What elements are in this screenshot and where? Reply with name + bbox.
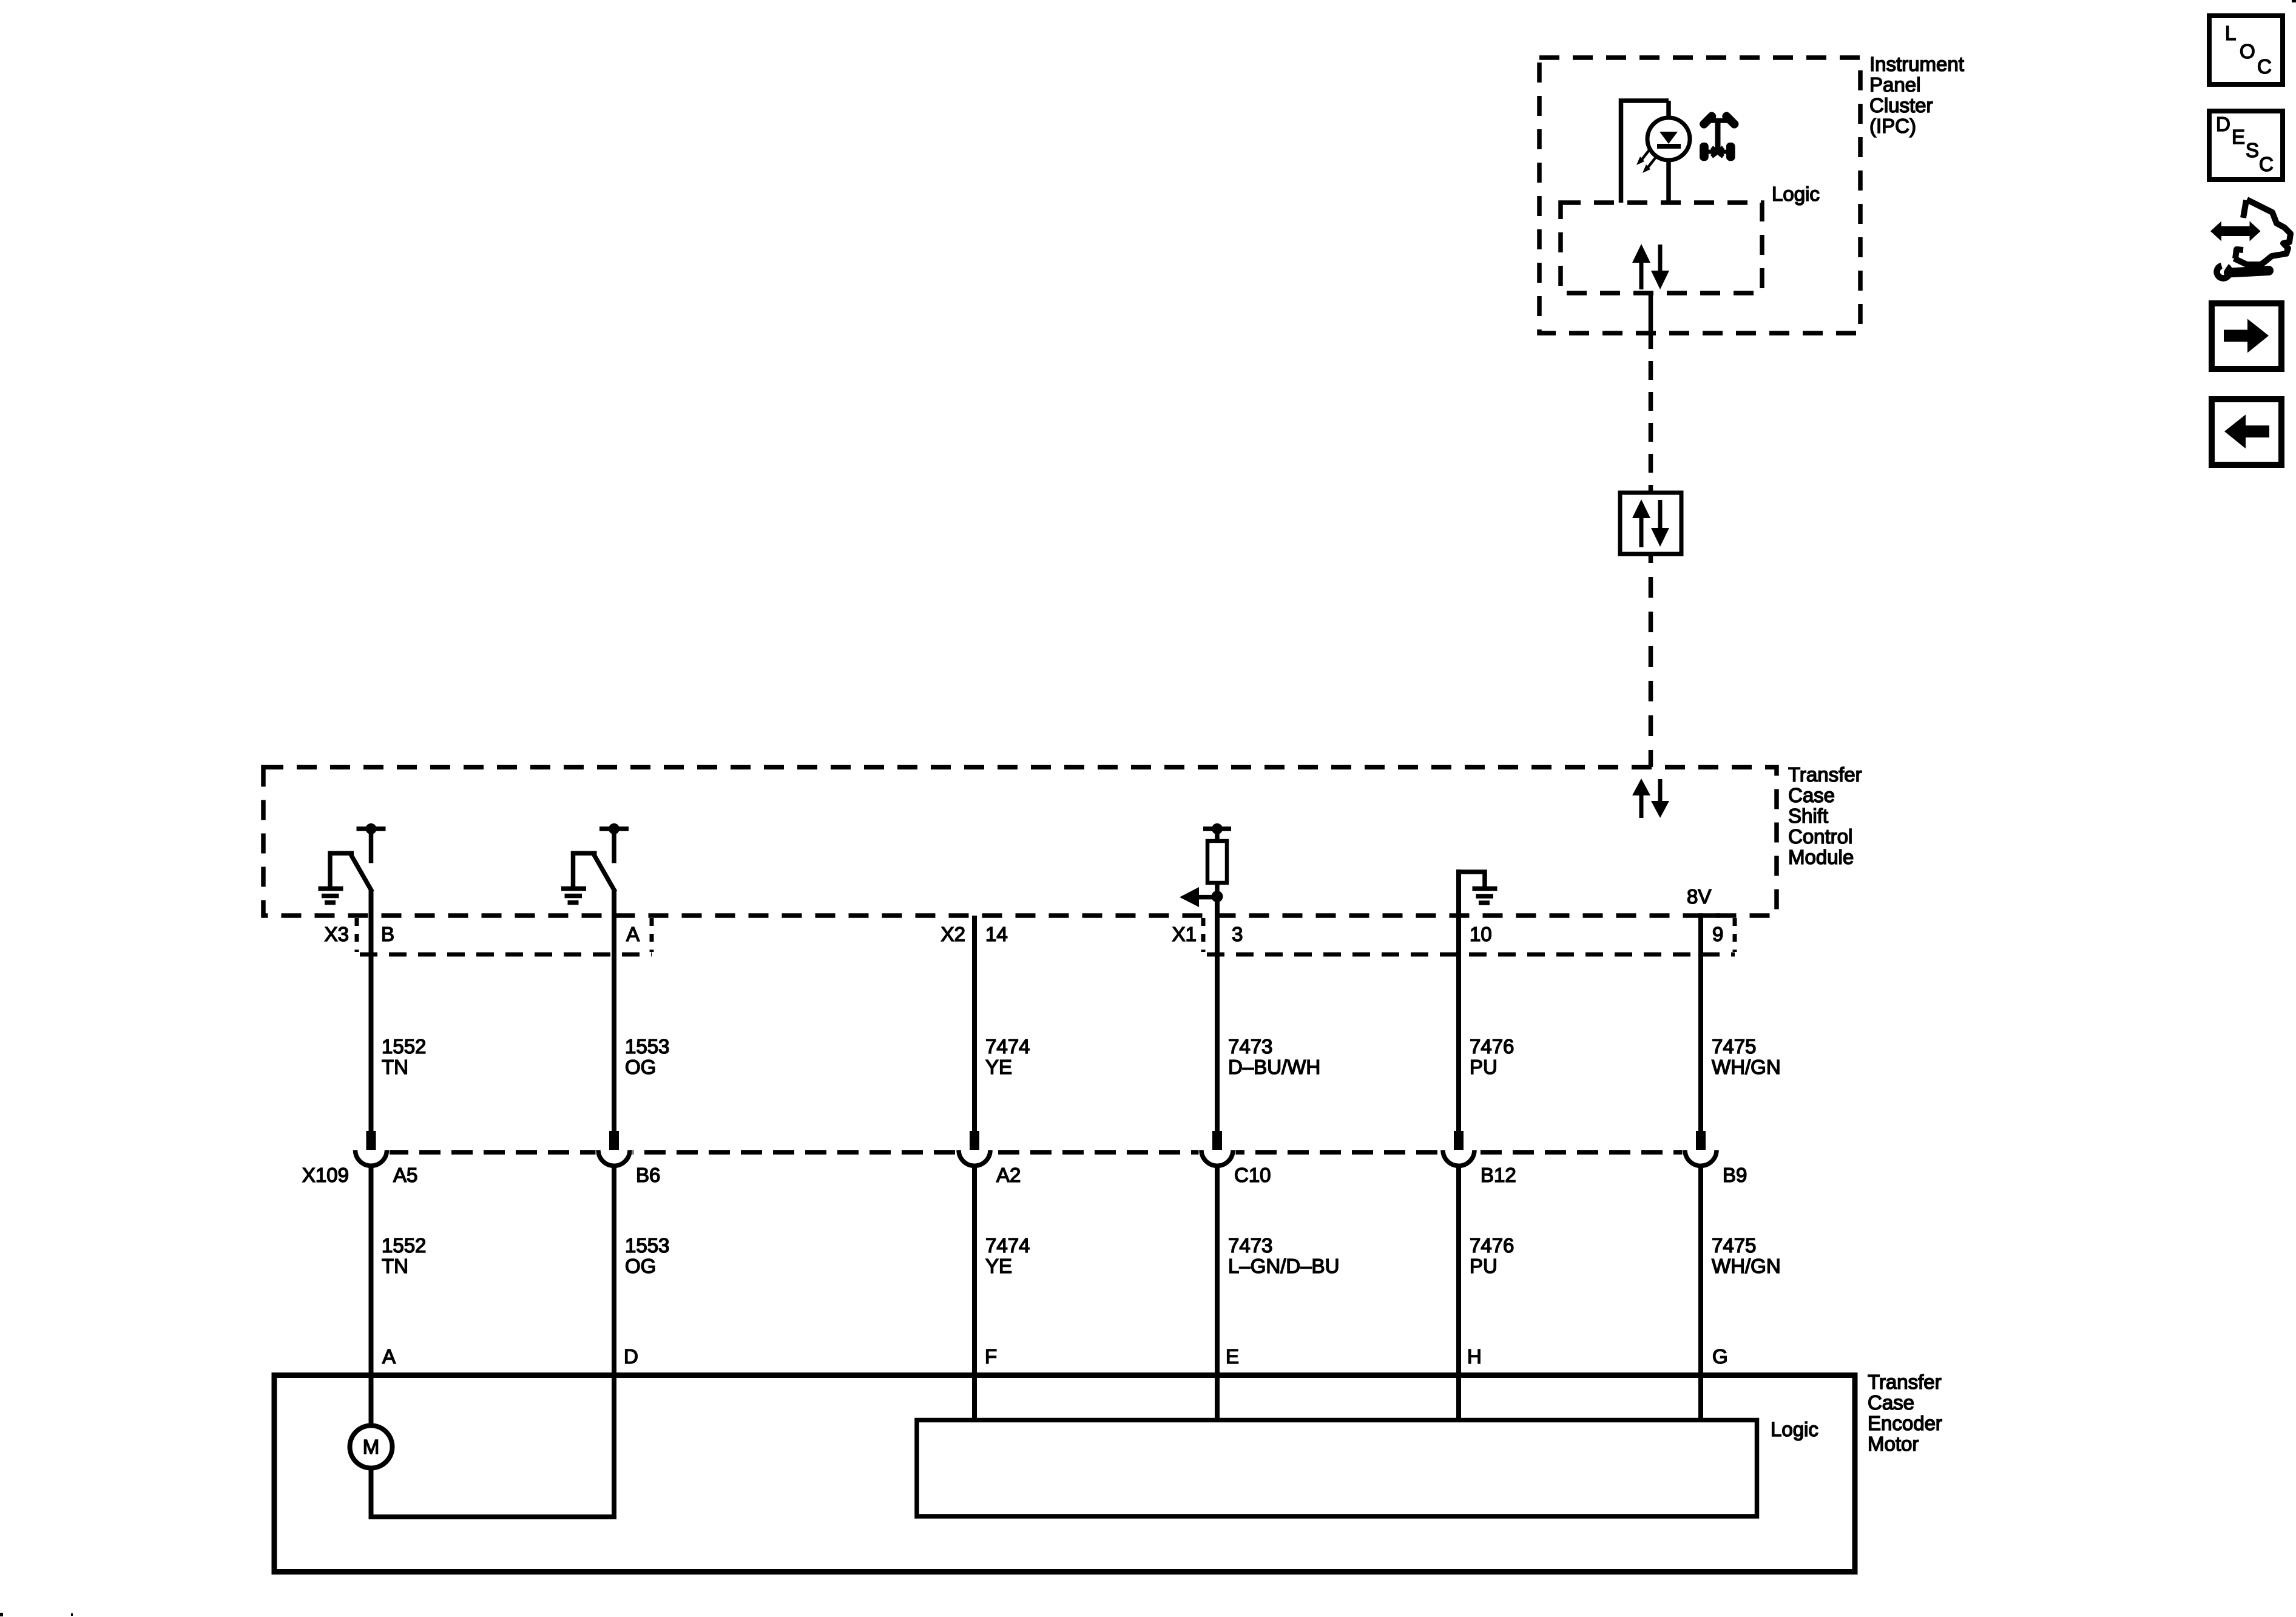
connector terminal B9 [1685, 1131, 1747, 1186]
DESC icon box [2209, 111, 2283, 180]
svg-text:Logic: Logic [1771, 1418, 1818, 1440]
motor M [350, 1426, 393, 1468]
svg-text:B9: B9 [1723, 1164, 1747, 1186]
svg-text:B12: B12 [1481, 1164, 1516, 1186]
svg-text:8V: 8V [1687, 885, 1711, 908]
svg-text:L: L [2225, 22, 2236, 44]
IPC dashed box [1539, 58, 1860, 333]
encoder logic box [917, 1420, 1757, 1517]
svg-text:D: D [624, 1345, 638, 1368]
svg-text:E: E [2232, 126, 2245, 148]
svg-text:A5: A5 [393, 1164, 417, 1186]
svg-text:14: 14 [985, 923, 1008, 945]
IPC logic dashed box [1561, 203, 1762, 293]
connector terminal B6 [598, 1131, 660, 1186]
connector X3 dotted box [357, 918, 652, 954]
dashed serial data link (upper) [1649, 349, 1653, 493]
svg-text:3: 3 [1232, 923, 1243, 945]
svg-text:O: O [2240, 40, 2255, 62]
wire below connector A2 [972, 1166, 977, 1422]
svg-text:X2: X2 [941, 923, 965, 945]
serial data arrows (module) [1632, 778, 1669, 818]
connector terminal A5 [356, 1131, 418, 1186]
svg-text:A: A [626, 923, 640, 945]
resistor R (pin 3, X1) [1203, 823, 1231, 899]
switch S2 (pin A) [573, 823, 629, 892]
svg-text:X1: X1 [1172, 923, 1197, 945]
indicator lamp loop rectangle [1621, 101, 1669, 203]
arrow to left (pin 3) [1198, 895, 1217, 900]
svg-text:B6: B6 [636, 1164, 660, 1186]
wire below connector B9 [1698, 1166, 1703, 1422]
wire motor to D [371, 1375, 615, 1517]
connector X1 dotted box [1203, 918, 1735, 954]
wire from IPC logic down [1649, 293, 1653, 349]
svg-text:Logic: Logic [1772, 183, 1820, 205]
LOC icon box [2209, 16, 2283, 84]
svg-text:C: C [2257, 55, 2272, 78]
svg-text:D: D [2216, 113, 2230, 135]
LED diode triangle [1660, 132, 1678, 144]
node (pin 3 junction) [1212, 891, 1223, 902]
indicator LED wire [1666, 101, 1671, 203]
svg-text:B: B [381, 923, 394, 945]
serial data connector box [1620, 493, 1681, 554]
svg-text:G: G [1712, 1345, 1728, 1368]
wire pin B down to connector [369, 890, 374, 1134]
connector X109 dashed line [355, 1150, 1718, 1155]
serial data arrows (mid box) [1632, 499, 1669, 547]
svg-text:X3: X3 [325, 923, 349, 945]
svg-text:H: H [1467, 1345, 1482, 1368]
svg-text:9: 9 [1712, 923, 1723, 945]
wire below connector A5 [369, 1166, 374, 1375]
svg-text:E: E [1226, 1345, 1239, 1368]
ground (switch S1) [319, 889, 343, 903]
module dashed box [263, 768, 1777, 916]
LED light arrows [1636, 149, 1656, 173]
wire pin A down to connector [612, 890, 616, 1134]
encoder motor box [274, 1376, 1855, 1572]
svg-text:C: C [2259, 153, 2274, 175]
left arrow icon box [2212, 399, 2281, 465]
svg-text:M: M [363, 1436, 380, 1458]
4WD drivetrain icon [1698, 111, 1740, 161]
svg-text:X109: X109 [302, 1164, 349, 1186]
serial data arrows (IPC logic) [1632, 244, 1669, 289]
ground (switch S2) [561, 889, 586, 903]
wire pin 3 down to connector [1215, 897, 1220, 1134]
switch S1 (pin B) [330, 823, 386, 892]
connector terminal A2 [959, 1131, 1021, 1186]
wire below connector B6 [612, 1166, 616, 1375]
svg-text:F: F [985, 1345, 997, 1368]
wire pin 9 down to connector [1698, 913, 1720, 918]
wire below connector B12 [1456, 1166, 1461, 1422]
svg-text:A2: A2 [996, 1164, 1021, 1186]
ground (pin 10) [1459, 872, 1497, 903]
svg-text:S: S [2246, 139, 2259, 161]
svg-text:10: 10 [1470, 923, 1492, 945]
page corner mark [2292, 0, 2296, 2]
right arrow icon box [2212, 303, 2281, 369]
wire below connector C10 [1215, 1166, 1220, 1422]
LED cathode bar [1657, 144, 1681, 149]
connector terminal B12 [1443, 1131, 1516, 1186]
wire pin 10 down to connector [1456, 869, 1461, 1134]
dashed serial data link (lower) [1649, 554, 1653, 563]
connector terminal C10 [1201, 1131, 1271, 1186]
wire pin 14 (X2) down to connector [972, 916, 977, 1134]
indicator LED circle [1647, 118, 1690, 160]
connector repair icon (double arrow, terminal outline, wrench) [2210, 200, 2291, 279]
svg-text:C10: C10 [1234, 1164, 1271, 1186]
svg-text:A: A [382, 1345, 396, 1368]
wire A to motor [369, 1375, 374, 1426]
